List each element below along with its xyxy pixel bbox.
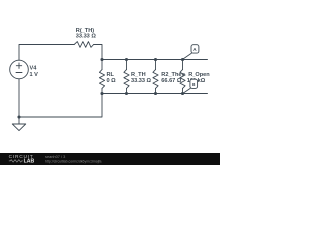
ground — [18, 117, 20, 124]
wire bottom bus to ground rail — [19, 94, 102, 118]
junction RL bottom — [100, 92, 103, 95]
junction R_TH top — [125, 58, 128, 61]
svg-text:33.33 Ω: 33.33 Ω — [76, 34, 97, 40]
node A flag — [183, 45, 199, 59]
footer logo zigzag + LAB — [9, 160, 23, 162]
svg-text:LAB: LAB — [24, 158, 35, 164]
svg-text:1 V: 1 V — [30, 72, 39, 78]
junction R_Open bottom / node B — [181, 92, 184, 95]
junction RL top — [100, 58, 103, 61]
wire bottom bus — [102, 93, 208, 95]
resistor R_Open — [180, 60, 185, 94]
wire V4 bottom — [18, 79, 20, 117]
svg-text:http://circuitlab.com/c/dk6ymc: http://circuitlab.com/c/dk6ymc3majfa — [45, 159, 101, 163]
junction R2_Thev bottom — [154, 92, 157, 95]
wire R(_TH) right to top bus — [94, 45, 102, 60]
svg-text:0 Ω: 0 Ω — [107, 78, 117, 84]
svg-text:seanh07 / 3: seanh07 / 3 — [45, 154, 65, 159]
resistor R2_Thev — [153, 60, 158, 94]
resistor RL — [99, 60, 104, 94]
labels — [30, 28, 211, 84]
svg-text:A: A — [193, 47, 197, 53]
junction R_TH bottom — [125, 92, 128, 95]
wire top bus — [102, 59, 208, 61]
wire V4 top to top row — [19, 45, 74, 61]
junction V4 ground — [17, 115, 20, 118]
footer bar — [0, 153, 220, 165]
resistor R_TH — [124, 60, 129, 94]
svg-text:V4: V4 — [30, 65, 38, 71]
svg-text:66.67 Ω: 66.67 Ω — [161, 78, 182, 84]
svg-text:B: B — [192, 82, 196, 88]
node B flag — [183, 79, 198, 93]
svg-text:33.33 Ω: 33.33 Ω — [131, 78, 152, 84]
resistor R(_TH) — [74, 42, 93, 48]
junction R_Open top / node A — [181, 58, 184, 61]
junction R2_Thev top — [154, 58, 157, 61]
voltage source V4 — [10, 60, 29, 79]
